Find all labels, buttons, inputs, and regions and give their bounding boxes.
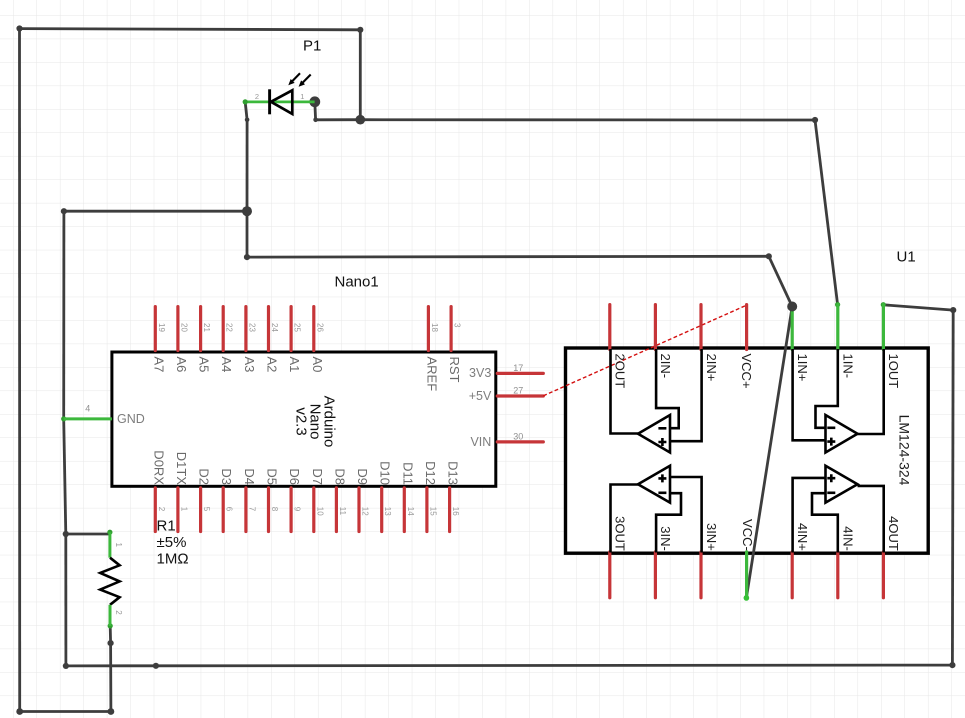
- pin 3IN-: [654, 552, 657, 598]
- svg-text:18: 18: [430, 323, 439, 332]
- svg-text:4: 4: [85, 404, 90, 414]
- pin 3IN+: [699, 552, 702, 598]
- Nano1 pin +5V: [497, 394, 543, 397]
- svg-text:D12: D12: [423, 461, 438, 485]
- Nano1 pin 3V3: [497, 372, 543, 375]
- svg-text:1IN+: 1IN+: [795, 354, 810, 382]
- junction dot at 1IN+ pin top: [788, 302, 797, 311]
- Nano1 pin D4: [244, 488, 247, 532]
- svg-text:A1: A1: [287, 357, 302, 373]
- bend dot (360,28.5): [357, 27, 363, 33]
- svg-text:8: 8: [270, 507, 279, 512]
- P1 pin 1 green wire: [270, 101, 315, 104]
- right pin numbers 17,27,30: [513, 363, 523, 442]
- svg-text:7: 7: [247, 507, 256, 512]
- svg-text:±5%: ±5%: [157, 534, 187, 551]
- svg-text:1OUT: 1OUT: [886, 354, 901, 389]
- op-amp unit 4 (bottom-right, points right): [793, 466, 884, 553]
- resistor R1: [100, 518, 188, 626]
- Nano1 pin A0: [312, 307, 315, 351]
- wire: horizontal y=211 junction to left rail: [64, 210, 247, 213]
- svg-text:D6: D6: [287, 468, 302, 485]
- svg-text:D3: D3: [219, 468, 234, 485]
- wire: slant from 1IN+ junction through IC to VCC- pin bottom: [746, 307, 792, 598]
- P1 light arrow 1: [292, 73, 300, 81]
- wire: from diode pin1 junction down: [313, 102, 317, 120]
- svg-text:P1: P1: [303, 38, 321, 55]
- svg-text:6: 6: [225, 507, 234, 512]
- Nano1 GND pin (green): [64, 417, 112, 420]
- svg-text:1: 1: [300, 92, 304, 101]
- wire: slant from right rail to 1OUT pin top: [883, 305, 953, 310]
- svg-text:A2: A2: [265, 357, 280, 373]
- bend dot (111,711.5): [108, 708, 115, 715]
- svg-text:D2: D2: [197, 468, 212, 485]
- wire: slant to 1IN+ pin junction: [769, 256, 792, 306]
- svg-text:D9: D9: [355, 468, 370, 485]
- bend dot (19.7,711.5): [16, 708, 23, 715]
- U1 op-amp1 non-inverting input wire from 1IN+: [793, 349, 826, 440]
- Nano1 pin A7: [154, 307, 157, 351]
- svg-text:4IN-: 4IN-: [841, 526, 856, 551]
- svg-text:AREF: AREF: [424, 357, 439, 392]
- svg-text:3IN-: 3IN-: [658, 526, 673, 551]
- svg-text:A3: A3: [242, 357, 257, 373]
- Nano1 right pins 3V3,+5V,VIN (red): [497, 373, 543, 442]
- Nano1 pin D13: [448, 488, 451, 532]
- wire: top horizontal from left rail to x=360: [20, 29, 361, 30]
- bend dot (952,665): [949, 662, 955, 668]
- svg-text:2OUT: 2OUT: [613, 354, 628, 389]
- junction dot at (247,211): [242, 206, 252, 216]
- U1 op-amp2 inverting input wire from 2IN-: [656, 349, 679, 428]
- pin 2IN-: [654, 305, 657, 350]
- wire: left rail vertical GND to R1 top tee: [64, 419, 66, 534]
- svg-text:17: 17: [513, 363, 523, 373]
- bend dot (110.6,643): [108, 640, 114, 646]
- U1 op-amp1 plus symbol: [827, 438, 835, 446]
- svg-text:D11: D11: [400, 462, 415, 485]
- svg-text:2: 2: [255, 92, 259, 101]
- svg-text:30: 30: [513, 431, 523, 441]
- Nano1 pin D2: [199, 488, 202, 532]
- bend dot (815,120): [812, 117, 818, 123]
- pin 4OUT: [882, 552, 885, 598]
- Nano1 pin D1TX: [176, 488, 179, 532]
- svg-text:D7: D7: [310, 468, 325, 485]
- svg-text:1: 1: [114, 543, 123, 548]
- wire: vertical x=247 from junction down: [246, 211, 249, 257]
- Nano1 pin A2: [267, 307, 270, 351]
- Nano1 pin D9: [357, 488, 360, 532]
- Nano1 top pin labels: [151, 357, 462, 392]
- svg-text:20: 20: [179, 323, 188, 332]
- svg-text:D1TX: D1TX: [174, 452, 189, 486]
- svg-text:19: 19: [157, 323, 166, 332]
- U1 bottom pin labels: [613, 516, 902, 551]
- svg-text:3: 3: [453, 323, 462, 328]
- svg-text:VCC+: VCC+: [739, 354, 754, 389]
- pin 4IN-: [836, 552, 839, 598]
- bend dot (66,534): [63, 531, 69, 537]
- svg-text:5: 5: [202, 507, 211, 512]
- P1 triangle: [271, 90, 292, 114]
- svg-text:A6: A6: [174, 357, 189, 373]
- bend dot (247,257): [244, 254, 250, 260]
- svg-text:R1: R1: [157, 518, 176, 535]
- svg-text:11: 11: [338, 507, 347, 516]
- svg-text:16: 16: [451, 507, 460, 516]
- U1 top pin labels: [613, 354, 902, 389]
- svg-text:U1: U1: [897, 249, 916, 266]
- Nano1 pin AREF: [427, 307, 430, 351]
- svg-text:A5: A5: [197, 357, 212, 373]
- U1 op-amp1 triangle: [826, 415, 858, 453]
- svg-text:Nano1: Nano1: [335, 274, 379, 291]
- svg-text:15: 15: [428, 507, 437, 516]
- U1 op-amp4 triangle: [826, 466, 858, 503]
- svg-text:13: 13: [383, 507, 392, 516]
- R1 pin 2 green: [109, 605, 112, 626]
- svg-text:9: 9: [293, 507, 302, 512]
- svg-text:1IN-: 1IN-: [841, 354, 856, 379]
- Nano1 pin A3: [244, 307, 247, 351]
- svg-text:3V3: 3V3: [469, 366, 491, 380]
- svg-text:D13: D13: [446, 461, 461, 485]
- bend dot (953,310): [950, 307, 956, 313]
- svg-text:VIN: VIN: [470, 435, 491, 449]
- P1 pin 2 green wire: [245, 101, 269, 104]
- svg-text:10: 10: [315, 507, 324, 516]
- photodiode P1: [245, 38, 321, 115]
- U1 op-amp2 minus symbol: [658, 427, 666, 430]
- wire: left rail vertical down to GND pin: [62, 211, 65, 419]
- bend dot (156,666): [153, 663, 159, 669]
- pin 2OUT: [608, 305, 611, 350]
- U1 op-amp1 minus symbol: [827, 426, 835, 429]
- svg-text:3IN+: 3IN+: [704, 523, 719, 551]
- pin 4IN+: [791, 552, 794, 598]
- R1 pin 1 green: [108, 532, 111, 558]
- svg-text:A7: A7: [151, 357, 166, 373]
- U1 bottom pins: [610, 552, 884, 598]
- pin 1OUT (green): [882, 305, 885, 350]
- pin 3OUT: [608, 552, 611, 598]
- wire: from diode pin2 down short: [245, 102, 247, 120]
- U1 op-amp3 minus symbol: [658, 491, 666, 494]
- wire: from R1 pin2 down: [109, 626, 113, 712]
- U1 op-amp4 minus symbol: [827, 491, 835, 494]
- Nano1 pin A5: [199, 307, 202, 351]
- wire: slant from (815,120) down to 1IN- pin top: [815, 120, 838, 305]
- Nano1 pin D12: [425, 488, 428, 532]
- U1 op-amp4 inverting input wire from 4IN-: [812, 493, 838, 552]
- wire: left rail vertical down to bottom bus: [64, 534, 67, 666]
- svg-text:D10: D10: [378, 461, 393, 485]
- Nano1 pin D10: [380, 488, 383, 532]
- wire: vertical x=360 from top wire down: [359, 30, 362, 120]
- svg-text:25: 25: [293, 323, 302, 332]
- Nano1 pin VIN: [497, 440, 543, 443]
- svg-text:27: 27: [513, 386, 523, 396]
- svg-text:A4: A4: [219, 357, 234, 373]
- svg-text:A0: A0: [310, 357, 325, 373]
- Nano1 pin D11: [403, 488, 406, 532]
- svg-text:D8: D8: [332, 468, 347, 485]
- junction dot at 1IN+ pin top (over wires): [787, 302, 797, 312]
- svg-text:D0RX: D0RX: [151, 450, 166, 485]
- right pin labels: [469, 366, 492, 449]
- svg-text:D4: D4: [242, 468, 257, 485]
- bend dot (64,211): [61, 208, 67, 214]
- svg-text:4OUT: 4OUT: [886, 516, 901, 551]
- Nano1 pin D5: [267, 488, 270, 532]
- U1 op-amp3 output wire from 3OUT: [611, 485, 639, 553]
- svg-text:21: 21: [202, 323, 211, 332]
- wire: horizontal y=257 to x=769: [247, 255, 769, 259]
- Arduino Nano Nano1: [64, 274, 496, 487]
- wire: horizontal to R1 pin1: [66, 533, 110, 536]
- bend dot (315.6,119.8): [313, 118, 318, 123]
- svg-text:24: 24: [270, 323, 279, 332]
- Nano1 pin A4: [222, 307, 225, 351]
- svg-text:GND: GND: [117, 412, 145, 426]
- Nano1 body box: [112, 352, 496, 486]
- R1 zigzag body: [100, 558, 119, 605]
- svg-text:14: 14: [406, 507, 415, 516]
- op-amp unit 1 (top-right, points right): [793, 349, 884, 453]
- U1 op-amp2 non-inverting input wire from 2IN+: [670, 349, 702, 441]
- svg-text:4IN+: 4IN+: [795, 523, 810, 551]
- U1 op-amp3 inverting input wire from 3IN-: [656, 493, 681, 552]
- op-amp unit 3 (bottom-left, points left): [611, 466, 702, 553]
- op-amp IC U1 LM124-324: [543, 249, 928, 598]
- Nano1 pin D3: [222, 488, 225, 532]
- svg-text:RST: RST: [447, 357, 462, 383]
- wire: right rail vertical up: [951, 310, 955, 665]
- bend dot (247,120): [245, 118, 250, 123]
- green endpoint dot at VCC- pin bottom (over wire): [744, 595, 750, 601]
- svg-text:26: 26: [315, 323, 324, 332]
- junction dot at (360,120): [356, 115, 366, 125]
- Nano1 bottom pin labels: [151, 450, 460, 485]
- svg-text:+5V: +5V: [469, 389, 492, 403]
- Nano1 pin D6: [290, 488, 293, 532]
- svg-text:23: 23: [247, 323, 256, 332]
- U1 op-amp2 output wire from 2OUT: [611, 349, 639, 434]
- U1 op-amp3 triangle: [638, 466, 670, 503]
- P1 cathode bar: [268, 89, 271, 114]
- U1 top pins: [610, 305, 884, 350]
- Nano1 bottom pin numbers: [157, 507, 460, 516]
- pin 1IN+ (green): [791, 306, 794, 350]
- pin 2IN+: [699, 305, 702, 350]
- Nano1 top pins A7..A0, AREF, RST (red): [155, 307, 451, 351]
- svg-text:v2.3: v2.3: [293, 407, 310, 435]
- svg-text:LM124-324: LM124-324: [897, 415, 913, 486]
- wire: bottom bus horizontal to right rail: [66, 664, 953, 668]
- U1 op-amp2 triangle: [638, 415, 670, 453]
- Nano1 pin D8: [335, 488, 338, 532]
- U1 op-amp3 plus symbol: [658, 474, 666, 482]
- svg-text:2IN+: 2IN+: [704, 354, 719, 382]
- svg-text:2: 2: [157, 507, 166, 512]
- svg-text:22: 22: [225, 323, 234, 332]
- Nano1 pin A6: [176, 307, 179, 351]
- U1 op-amp4 output wire to 4OUT: [858, 486, 884, 553]
- svg-text:2IN-: 2IN-: [658, 354, 673, 379]
- wire: left outer rail vertical: [18, 29, 21, 712]
- ratsnest dashed from +5V to VCC+: [543, 305, 746, 396]
- U1 op-amp1 inverting input wire from 1IN-: [816, 349, 838, 428]
- U1 op-amp2 plus symbol: [658, 438, 666, 446]
- U1 op-amp3 non-inverting input wire from 3IN+: [670, 477, 702, 553]
- green endpoint dots: [243, 99, 248, 104]
- bend dot (66,666): [63, 663, 69, 669]
- svg-text:3OUT: 3OUT: [613, 516, 628, 551]
- bend dot top-left corner: [16, 25, 22, 31]
- U1 op-amp4 non-inverting input wire from 4IN+: [793, 478, 826, 553]
- pin VCC+: [745, 305, 748, 350]
- wire: horizontal y=120 from diode drop to x=815: [316, 118, 815, 121]
- svg-text:12: 12: [361, 507, 370, 516]
- U1 body box: [566, 348, 929, 553]
- junction dot at diode pin1: [309, 96, 320, 107]
- wire: vertical x=247 down to junction: [246, 120, 249, 211]
- Nano1 pin D7: [312, 488, 315, 532]
- pin 1IN- (green): [836, 305, 839, 350]
- P1 light arrow 2: [303, 75, 311, 83]
- op-amp unit 2 (top-left, points left): [611, 349, 702, 453]
- wire: bottom-left horizontal: [20, 710, 111, 713]
- svg-text:VCC-: VCC-: [740, 519, 755, 551]
- Nano1 bottom pins D0RX..D13 (red): [155, 488, 449, 532]
- U1 op-amp4 plus symbol: [827, 474, 835, 482]
- svg-text:1MΩ: 1MΩ: [157, 551, 189, 568]
- Nano1 pin A1: [290, 307, 293, 351]
- Nano1 top pin numbers: [157, 323, 462, 332]
- bend dot (769,256): [766, 253, 772, 259]
- pin VCC- (green): [745, 552, 748, 598]
- U1 op-amp1 output wire to 1OUT: [858, 349, 884, 434]
- svg-text:1: 1: [179, 507, 188, 512]
- Nano1 pin RST: [450, 307, 453, 351]
- svg-text:2: 2: [114, 610, 123, 615]
- svg-text:D5: D5: [265, 468, 280, 485]
- Nano1 pin D0RX: [154, 488, 157, 532]
